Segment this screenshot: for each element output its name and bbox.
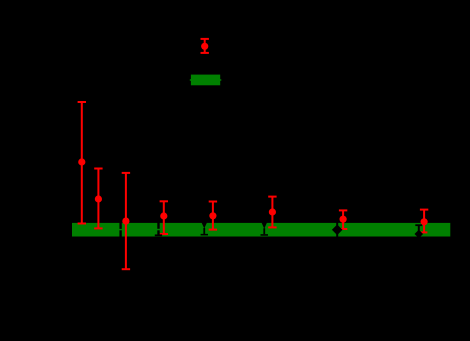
black partner 7 (large diamond + error line) — [332, 218, 343, 240]
green band — [72, 223, 450, 237]
red data point 6 — [268, 197, 276, 228]
black partner 3 (error line with gap) — [119, 222, 121, 238]
legend green patch — [190, 75, 222, 86]
red data point 4 — [160, 201, 168, 234]
red data point 8 — [420, 210, 428, 233]
black partner 8 (diamond + error line + top cap) — [415, 225, 424, 238]
red data point 1 — [78, 102, 86, 224]
black partner 6 (marker + error line + cap) — [261, 222, 269, 235]
red data point 3 — [122, 173, 130, 269]
red data point 2 — [94, 169, 102, 229]
red data point 7 — [339, 210, 347, 229]
red data point 5 — [209, 202, 217, 230]
legend red errorbar marker — [201, 39, 209, 53]
black partner 4 (error line with gap + cap) — [155, 222, 162, 236]
black partner 5 (marker + error line + cap) — [201, 222, 208, 234]
